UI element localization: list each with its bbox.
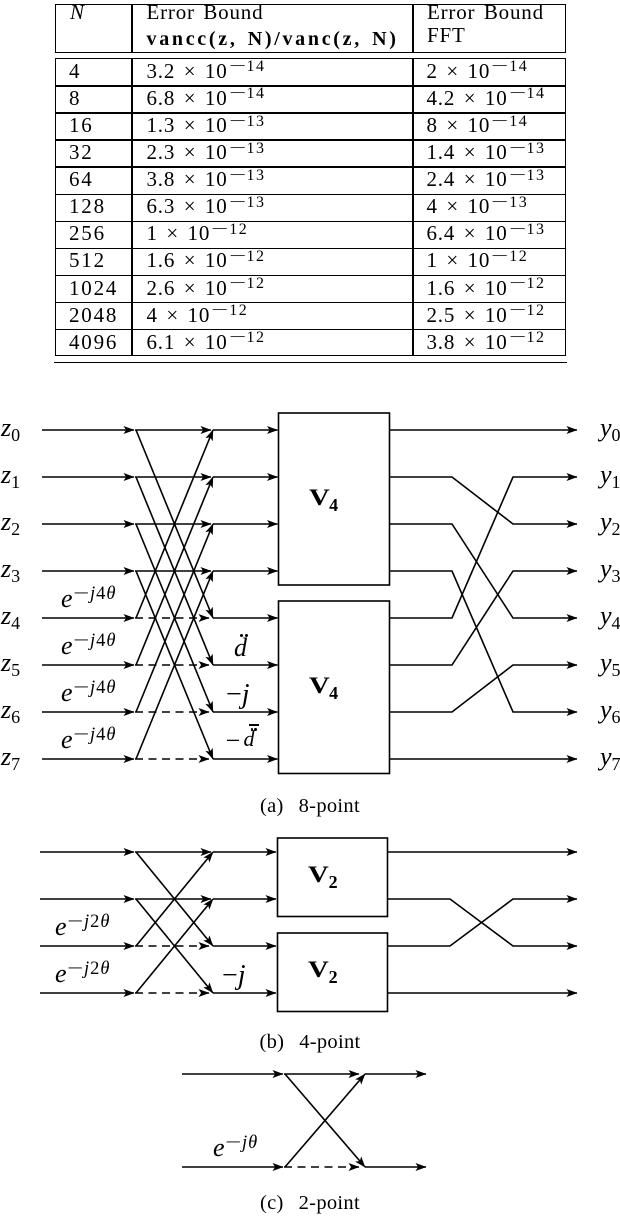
wire b-input row 1 segment (40, 898, 134, 900)
twiddle label e^-j2theta row 2 (55, 913, 110, 944)
wire V4 output row 2 to y4 (390, 524, 577, 618)
block label V2 bottom (308, 957, 338, 984)
table row 256 (69, 221, 106, 245)
wire V2 output row 3 to out3 (388, 992, 578, 994)
wire z4 input segment (42, 617, 134, 619)
wire z2 straight-through stage1 (135, 523, 211, 525)
wire z6 dashed straight-through stage1 (135, 711, 209, 713)
node label y5 (600, 649, 620, 679)
wire z0 input segment (42, 429, 134, 431)
wire c top input segment (182, 1073, 283, 1075)
wire cross z1 down to row 5 (136, 477, 213, 665)
wire cross z7 up to row 3 (136, 571, 213, 759)
table row 4096 (69, 330, 118, 354)
table body frame (55, 58, 566, 356)
wire cross z0 down to row 4 (136, 430, 213, 618)
table row divider 8 (55, 275, 566, 277)
wire c bottom dashed straight-through (284, 1166, 359, 1168)
wire z1 straight-through stage1 (135, 476, 211, 478)
table row divider 10 (55, 329, 566, 331)
caption (a) 8-point (160, 794, 460, 818)
table row 16 (69, 113, 94, 137)
table column divider 1 body (131, 58, 133, 356)
wire V4 output row 6 to y5 (390, 665, 577, 712)
wire z5 input segment (42, 664, 134, 666)
table row 1024 (69, 276, 118, 300)
table row divider 3 (55, 139, 566, 141)
table row 64 (69, 167, 94, 191)
twiddle label e^-jtheta diagram c (213, 1134, 258, 1165)
twiddle label e^-j4theta row 4 (61, 585, 116, 616)
node label y6 (600, 696, 620, 726)
wire V4 output row 4 to y1 (390, 477, 577, 618)
node label z0 (1, 414, 20, 444)
table row divider 2 (55, 112, 566, 114)
table row divider 5 (55, 194, 566, 196)
table column divider 1 header (131, 4, 133, 53)
wire b row 0 into V2 box (213, 851, 276, 853)
node label z5 (1, 649, 20, 679)
wire cross z3 down to row 7 (136, 571, 213, 759)
wire cross z5 up to row 1 (136, 477, 213, 665)
node label y2 (600, 508, 620, 538)
wire b row 3 into V2 box (213, 992, 276, 994)
wire row 0 into V4 box (213, 429, 278, 431)
table header cell N (70, 0, 85, 24)
table row divider 4 (55, 166, 566, 168)
table row 128 (69, 194, 106, 218)
node label z2 (1, 508, 20, 538)
wire b row 2 into V2 box (213, 945, 276, 947)
wire row 6 into V4 box (213, 711, 278, 713)
twiddle label e^-j2theta row 3 (55, 960, 110, 991)
wire b row 3 dashed straight-through (135, 992, 209, 994)
node label z7 (1, 743, 20, 773)
wire z7 input segment (42, 758, 134, 760)
caption (c) 2-point (160, 1191, 460, 1215)
wire row 4 into V4 box (213, 617, 278, 619)
wire cross z6 up to row 2 (136, 524, 213, 712)
wire row 1 into V4 box (213, 476, 278, 478)
multiplier label -dbar-ddot above row7 (226, 727, 241, 755)
wire b row 1 into V2 box (213, 898, 276, 900)
node label z6 (1, 696, 20, 726)
table header col3 line2 FFT (427, 23, 466, 47)
wire z4 dashed straight-through stage1 (135, 617, 209, 619)
twiddle label e^-j4theta row 7 (61, 726, 116, 757)
node label z4 (1, 602, 20, 632)
multiplier label -j above b row3 (222, 962, 246, 990)
table bottom double rule (54, 362, 567, 364)
caption (b) 4-point (160, 1030, 460, 1054)
table header frame (55, 4, 566, 53)
table header col2 line1 Error Bound (147, 0, 264, 24)
node label y0 (600, 414, 620, 444)
wire z7 dashed straight-through stage1 (135, 758, 209, 760)
twiddle label e^-j4theta row 5 (61, 632, 116, 663)
node label z1 (1, 461, 20, 491)
wire c top output segment (365, 1073, 426, 1075)
wire z3 input segment (42, 570, 134, 572)
wire b row 0 straight-through (135, 851, 211, 853)
wire cross z4 up to row 0 (136, 430, 213, 618)
table row divider 1 (55, 85, 566, 87)
wire b cross row 2 up to row 0 (136, 852, 213, 946)
table row divider 9 (55, 302, 566, 304)
wire z5 dashed straight-through stage1 (135, 664, 209, 666)
node label y4 (600, 602, 620, 632)
table row 32 (69, 140, 94, 164)
wire z3 straight-through stage1 (135, 570, 211, 572)
block label V2 top (308, 862, 338, 889)
op block V4 top box (279, 413, 390, 585)
wire b row 1 straight-through (135, 898, 211, 900)
multiplier label -j above row6 (226, 681, 250, 709)
wire b cross row 3 up to row 1 (136, 899, 213, 993)
wire V2 output row 2 to out1 (388, 899, 578, 946)
wire z0 straight-through stage1 (135, 429, 211, 431)
wire c bottom output segment (365, 1166, 426, 1168)
wire b-input row 0 segment (40, 851, 134, 853)
op block V2 bottom box (278, 933, 388, 1012)
wire z2 input segment (42, 523, 134, 525)
table header col3 line1 Error Bound (427, 0, 544, 24)
op block V4 bottom box (279, 601, 390, 774)
wire V2 output row 0 to out0 (388, 851, 578, 853)
wire V4 output row 3 to y6 (390, 571, 577, 712)
wire V4 output row 5 to y3 (390, 571, 577, 665)
table header col2 line2 vancc (147, 27, 399, 51)
node label y1 (600, 461, 620, 491)
wire z1 input segment (42, 476, 134, 478)
table row 512 (69, 248, 106, 272)
block label V4 bottom (309, 673, 339, 700)
table row divider 7 (55, 248, 566, 250)
node label y3 (600, 555, 620, 585)
wire c cross bottom up to top (285, 1074, 365, 1167)
wire V4 output row 7 to y7 (390, 758, 577, 760)
wire b cross row 0 down to row 2 (136, 852, 213, 946)
wire cross z2 down to row 6 (136, 524, 213, 712)
wire b-input row 3 segment (40, 992, 134, 994)
wire row 5 into V4 box (213, 664, 278, 666)
wire row 7 into V4 box (213, 758, 278, 760)
wire row 2 into V4 box (213, 523, 278, 525)
wire b cross row 1 down to row 3 (136, 899, 213, 993)
table row 8 (69, 86, 81, 110)
table column divider 2 body (412, 58, 414, 356)
block label V4 top (309, 485, 339, 512)
table row divider 6 (55, 221, 566, 223)
table column divider 2 header (412, 4, 414, 53)
op block V2 top box (278, 838, 388, 917)
multiplier label ddot-d above row5 (234, 634, 247, 662)
node label z3 (1, 555, 20, 585)
wire V2 output row 1 to out2 (388, 899, 578, 946)
wire c top straight-through (284, 1073, 359, 1075)
table row 2048 (69, 303, 118, 327)
wire c cross top down to bottom (285, 1074, 365, 1167)
node label y7 (600, 743, 620, 773)
wire V4 output row 0 to y0 (390, 429, 577, 431)
wire z6 input segment (42, 711, 134, 713)
twiddle label e^-j4theta row 6 (61, 679, 116, 710)
wire b-input row 2 segment (40, 945, 134, 947)
wire V4 output row 1 to y2 (390, 477, 577, 524)
wire b row 2 dashed straight-through (135, 945, 209, 947)
table row 4 (69, 59, 81, 83)
wire row 3 into V4 box (213, 570, 278, 572)
wire c bottom input segment (182, 1166, 283, 1168)
